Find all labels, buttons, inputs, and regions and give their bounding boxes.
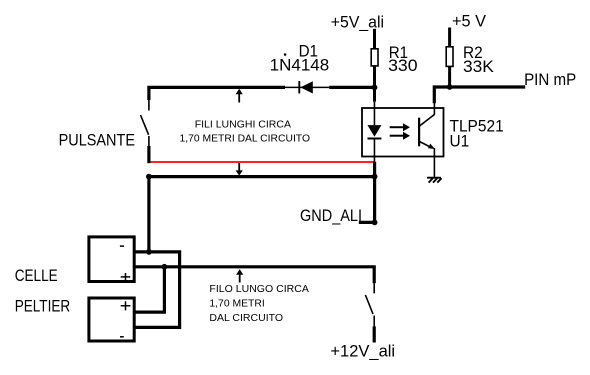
- svg-text:1N4148: 1N4148: [270, 55, 330, 74]
- svg-text:+12V_ali: +12V_ali: [330, 341, 395, 360]
- svg-text:FILO LUNGO CIRCA: FILO LUNGO CIRCA: [209, 283, 309, 295]
- svg-text:CELLE: CELLE: [15, 266, 58, 285]
- svg-text:PULSANTE: PULSANTE: [59, 131, 135, 150]
- svg-text:+5V_ali: +5V_ali: [331, 12, 384, 31]
- svg-text:PELTIER: PELTIER: [15, 297, 70, 316]
- svg-text:PIN mP: PIN mP: [524, 70, 576, 89]
- svg-text:+5 V: +5 V: [452, 11, 487, 30]
- svg-text:33K: 33K: [463, 57, 495, 76]
- svg-text:DAL CIRCUITO: DAL CIRCUITO: [209, 312, 283, 324]
- svg-text:U1: U1: [450, 132, 470, 151]
- svg-text:GND_ALI: GND_ALI: [300, 206, 362, 225]
- svg-text:FILI LUNGHI CIRCA: FILI LUNGHI CIRCA: [195, 119, 291, 131]
- svg-text:330: 330: [388, 56, 418, 75]
- svg-text:1,70 METRI DAL CIRCUITO: 1,70 METRI DAL CIRCUITO: [180, 132, 311, 144]
- svg-text:1,70 METRI: 1,70 METRI: [209, 298, 264, 310]
